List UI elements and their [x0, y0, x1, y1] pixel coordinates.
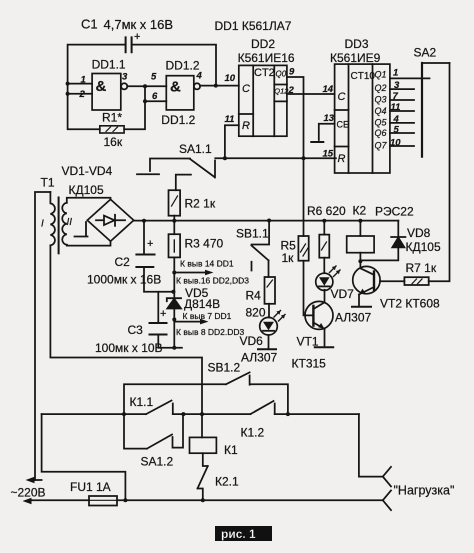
svg-text:4: 4: [196, 71, 203, 82]
svg-text:CE: CE: [337, 120, 350, 130]
node K2/VD8/VT2 junction: [358, 259, 362, 263]
svg-text:VD1-VD4: VD1-VD4: [62, 164, 113, 178]
svg-text:CT10: CT10: [351, 71, 376, 82]
svg-text:К выв 8 DD2.DD3: К выв 8 DD2.DD3: [176, 327, 245, 337]
svg-text:CT2: CT2: [254, 67, 275, 79]
svg-text:R6 620: R6 620: [307, 204, 346, 218]
svg-text:К561ИЕ16: К561ИЕ16: [238, 51, 295, 65]
wire DD2 Q0 pin9 down to reset line and R5: [287, 77, 304, 236]
capacitor C3: [95, 292, 182, 355]
svg-text:C: C: [242, 83, 250, 95]
svg-text:1: 1: [393, 68, 398, 79]
switch SA1.1: [137, 142, 215, 178]
counter DD3 К561ИЕ9: [330, 37, 390, 173]
terminal ~220V lower arrow with fuse line: [23, 498, 90, 504]
relay coil K1: [190, 437, 238, 457]
node rail bottom junction dots: [122, 412, 290, 416]
svg-text:II: II: [67, 217, 73, 228]
wire T1 primary bottom to relay network: [50, 245, 202, 437]
svg-text:16к: 16к: [104, 135, 123, 149]
terminal ~220V upper arrow: [11, 477, 46, 500]
svg-text:К выв 7 DD1: К выв 7 DD1: [183, 311, 232, 321]
wire R5 to VT1 base: [304, 261, 314, 316]
svg-text:1: 1: [81, 75, 86, 86]
resistor R2: [169, 175, 216, 221]
resistor R6: [307, 204, 346, 258]
resistor R5: [281, 236, 309, 265]
svg-text:Q7: Q7: [375, 141, 388, 151]
wire DD2 R pin11: [225, 125, 239, 158]
node fuse line junctions: [123, 498, 204, 502]
ground at VD6: [258, 348, 276, 350]
svg-text:Q3: Q3: [375, 95, 387, 105]
svg-text:R7 1к: R7 1к: [406, 261, 437, 275]
relay contact K1.1: [130, 395, 173, 414]
ground at VT2 emitter: [352, 306, 371, 308]
LED VD7: [316, 258, 372, 325]
svg-text:SB1.2: SB1.2: [208, 361, 241, 375]
svg-text:100мк x 10В: 100мк x 10В: [95, 341, 163, 355]
resistor R1: [100, 111, 124, 150]
svg-text:6: 6: [152, 91, 158, 102]
svg-text:T1: T1: [41, 176, 55, 190]
relay contact K1.2: [241, 401, 275, 440]
svg-text:Q5: Q5: [375, 118, 388, 128]
svg-text:11: 11: [391, 102, 401, 113]
svg-text:820: 820: [246, 306, 266, 320]
svg-text:К1.2: К1.2: [241, 426, 265, 440]
node arrow to pin 7 DD1: [172, 311, 244, 337]
svg-text:DD1.1: DD1.1: [92, 58, 126, 72]
svg-text:VD8: VD8: [407, 226, 431, 240]
wire C1 left to DD1.1 inputs and R1: [68, 45, 126, 130]
node rail junction dots: [142, 219, 362, 223]
svg-text:КД105: КД105: [69, 183, 104, 197]
LED VD6: [240, 304, 286, 365]
svg-text:FU1 1А: FU1 1А: [70, 480, 111, 494]
ground at VT1 emitter: [315, 346, 333, 348]
svg-text:К выв 14 DD1: К выв 14 DD1: [180, 259, 234, 269]
svg-text:Q0: Q0: [276, 70, 287, 79]
svg-text:1к: 1к: [282, 251, 295, 265]
switch SA2: [414, 46, 450, 157]
svg-text:SA2: SA2: [414, 46, 437, 60]
svg-text:3: 3: [122, 72, 128, 83]
svg-text:13: 13: [324, 113, 335, 124]
wire fuse to load: [117, 499, 383, 501]
node arrow to pin 14 DD1: [172, 259, 249, 286]
wire SA2 wiper down to R7: [429, 63, 450, 281]
svg-text:Q2: Q2: [375, 83, 387, 93]
wire DD2 Q12 pin2 to DD3 C pin14: [287, 93, 335, 95]
svg-text:DD2: DD2: [251, 37, 275, 51]
logic gate DD1.1: [92, 58, 128, 111]
ground at bridge minus: [75, 222, 88, 237]
svg-text:К561ИЕ9: К561ИЕ9: [330, 51, 381, 65]
svg-text:4: 4: [393, 114, 400, 125]
svg-text:&: &: [96, 78, 107, 95]
node gate junction dots: [143, 84, 147, 103]
svg-text:К2: К2: [353, 204, 367, 218]
relay coil K2 РЭС22: [347, 204, 414, 262]
resistor R3: [169, 221, 224, 258]
svg-text:РЭС22: РЭС22: [375, 205, 414, 219]
svg-text:R: R: [338, 153, 346, 165]
svg-text:VD6: VD6: [240, 334, 264, 348]
svg-text:R: R: [242, 120, 250, 132]
svg-text:4,7мк x 16В: 4,7мк x 16В: [104, 17, 174, 32]
svg-text:Q6: Q6: [375, 128, 387, 138]
ground bar at DD3 CE: [311, 141, 323, 143]
svg-text:SA1.2: SA1.2: [141, 455, 174, 469]
transistor VT2 КТ608: [353, 261, 440, 310]
capacitor C1: [81, 17, 173, 53]
push button SB1.1: [236, 221, 269, 278]
svg-text:2: 2: [79, 89, 86, 100]
svg-text:&: &: [170, 79, 181, 96]
node reset junctions: [223, 156, 306, 160]
diode bridge VD1-VD4: [62, 164, 134, 241]
svg-text:DD1.2: DD1.2: [166, 59, 200, 73]
svg-text:15: 15: [323, 149, 334, 160]
resistor R4: [246, 277, 276, 320]
node VD5 top junction: [171, 290, 175, 294]
svg-text:~220В: ~220В: [11, 486, 46, 500]
svg-text:Д814В: Д814В: [184, 297, 220, 311]
svg-text:7: 7: [393, 91, 399, 102]
wire +9V rail: [134, 220, 399, 222]
push button SB1.2: [124, 361, 288, 415]
svg-text:C2: C2: [115, 255, 131, 269]
svg-text:КТ315: КТ315: [292, 357, 327, 371]
svg-text:R1*: R1*: [102, 111, 122, 125]
svg-text:14: 14: [323, 84, 334, 95]
diode VD8: [360, 221, 441, 261]
wire DD3 outputs Q1-Q7: [390, 78, 430, 146]
connector to load "Нагрузка": [383, 467, 455, 510]
logic gate DD1.2: [161, 59, 200, 128]
svg-text:11: 11: [225, 114, 235, 125]
svg-text:"Нагрузка": "Нагрузка": [394, 484, 455, 498]
wire C1 right to DD1.2 output node: [132, 45, 216, 86]
svg-text:АЛ307: АЛ307: [241, 351, 277, 365]
wire DD1.1 output to DD1.2 inputs: [124, 86, 166, 129]
zener diode VD5: [167, 286, 220, 311]
svg-text:R2 1к: R2 1к: [185, 197, 216, 211]
svg-text:C3: C3: [128, 323, 144, 337]
counter DD2 К561ИЕ16: [215, 19, 295, 136]
svg-text:1000мк x 16В: 1000мк x 16В: [87, 273, 161, 287]
svg-text:C1: C1: [81, 17, 98, 32]
svg-text:VD7: VD7: [331, 287, 355, 301]
svg-text:10: 10: [225, 73, 236, 84]
transformer T1: [35, 176, 72, 481]
wire main +9V stabilized net below R3: [173, 257, 175, 347]
svg-text:R4: R4: [246, 289, 262, 303]
svg-text:SB1.1: SB1.1: [236, 227, 269, 241]
svg-text:К выв.16 DD2,DD3: К выв.16 DD2,DD3: [176, 276, 249, 286]
svg-text:DD1.2: DD1.2: [161, 113, 195, 127]
svg-text:9: 9: [289, 67, 295, 78]
svg-text:C: C: [338, 91, 346, 103]
resistor R7: [380, 261, 437, 285]
wire DD3 CE pin13 to ground: [319, 124, 335, 140]
svg-text:DD1 К561ЛА7: DD1 К561ЛА7: [215, 19, 292, 33]
svg-text:АЛ307: АЛ307: [335, 311, 371, 325]
switch SA1.2: [124, 414, 183, 468]
svg-text:10: 10: [390, 138, 401, 149]
svg-text:DD3: DD3: [345, 37, 369, 51]
svg-text:R3 470: R3 470: [185, 237, 224, 251]
svg-text:+: +: [160, 308, 166, 320]
node C1-left junction dots: [66, 82, 70, 96]
wire reset net SA1.1 to DD3 R: [215, 157, 336, 159]
svg-text:Q1: Q1: [375, 70, 387, 80]
transistor VT1 КТ315: [292, 290, 334, 371]
svg-text:5: 5: [394, 125, 400, 136]
wire DD1.2 output to DD2 C input: [200, 85, 239, 87]
wire T1 secondary to bridge: [67, 198, 111, 246]
caption рис. 1: [215, 526, 272, 541]
capacitor C2: [87, 221, 173, 292]
svg-text:К1: К1: [224, 443, 238, 457]
wire left mains branch: [42, 414, 126, 500]
svg-text:К2.1: К2.1: [215, 475, 239, 489]
svg-text:+: +: [147, 238, 153, 250]
wire load upper branch: [359, 414, 383, 477]
svg-text:SA1.1: SA1.1: [179, 142, 212, 156]
svg-text:Q4: Q4: [375, 106, 387, 116]
svg-text:рис. 1: рис. 1: [221, 527, 256, 541]
svg-text:К1.1: К1.1: [130, 395, 154, 409]
svg-text:3: 3: [394, 80, 400, 91]
node C3/main wire junction: [172, 346, 176, 350]
wire contact rail (mains switching): [42, 413, 359, 415]
svg-text:I: I: [41, 219, 44, 230]
svg-text:5: 5: [151, 72, 157, 83]
relay contact K2.1: [198, 453, 239, 500]
svg-text:+: +: [134, 31, 140, 43]
svg-text:КД105: КД105: [406, 240, 441, 254]
svg-text:VT2 КТ608: VT2 КТ608: [380, 297, 440, 311]
fuse FU1: [70, 480, 117, 506]
node output junction dot: [214, 84, 218, 88]
